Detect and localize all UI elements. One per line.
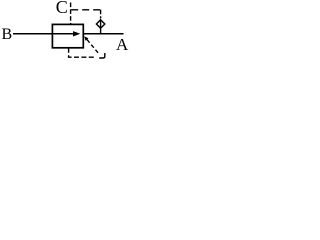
svg-text:B: B — [2, 26, 13, 43]
pilot line top horizontal — [71, 9, 101, 11]
filter stem — [100, 19, 102, 33]
drain line end hook — [99, 53, 105, 58]
wire valve to A — [83, 33, 123, 35]
compensation arrow head — [84, 36, 88, 41]
svg-text:C: C — [56, 0, 68, 17]
pilot line down to filter — [100, 10, 102, 19]
compensation arrow shaft — [87, 40, 100, 55]
flow arrow shaft inside valve — [53, 33, 74, 35]
svg-text:A: A — [116, 35, 129, 54]
drain line from valve bottom — [69, 48, 95, 57]
flow arrow head — [73, 31, 80, 36]
wire B to valve — [13, 33, 53, 35]
filter diamond — [96, 20, 104, 28]
pilot line from C down to valve top — [70, 3, 72, 25]
valve body — [52, 24, 83, 47]
